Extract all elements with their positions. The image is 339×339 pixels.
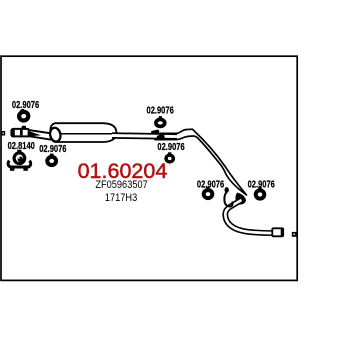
muffler seam line [58,133,112,135]
pipe from muffler exit (horizontal) [112,136,178,137]
tailpipe S-curve [225,200,274,233]
right frame connector square [292,232,297,237]
tailpipe tip [272,228,283,236]
left frame connector square [1,131,5,136]
inlet diagonal pipe to muffler [29,130,53,140]
gasket ring R2 [156,116,165,126]
gasket ring R4a [204,187,213,198]
hanger hook [224,193,232,207]
svg-text:02.9076: 02.9076 [39,143,66,154]
elbow joint blob [235,193,246,205]
hanger pin at elbow [225,187,229,193]
svg-text:02.8140: 02.8140 [8,140,35,151]
gasket ring R3 [166,152,173,162]
muffler body [49,123,117,142]
muffler inlet oval ring [49,127,62,143]
gasket ring R4b [256,187,265,198]
svg-text:ZF05963507: ZF05963507 [95,179,148,191]
svg-text:1717H3: 1717H3 [105,192,138,204]
svg-text:02.9076: 02.9076 [197,178,224,189]
hanger bracket 02.8140 icon [8,150,31,171]
svg-text:02.9076: 02.9076 [248,178,275,189]
inlet pipe stub [11,129,29,137]
svg-text:02.9076: 02.9076 [147,105,174,116]
inlet pipe dark wedge [29,131,41,136]
svg-text:02.9076: 02.9076 [12,99,39,110]
svg-text:02.9076: 02.9076 [157,141,184,152]
gasket ring R1 [17,108,29,121]
pipe clamp nubs at hump [151,129,165,140]
inlet stub top nub [22,126,26,130]
main pipe hump and diagonal run (outline) [155,129,247,195]
border frame [1,56,297,280]
gasket ring R3b below muffler [47,154,56,165]
